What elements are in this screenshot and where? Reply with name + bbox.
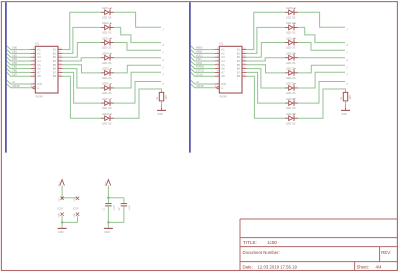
- wire IC2 B3 to LED11 anode: [247, 43, 285, 58]
- svg-text:GB2: GB2: [12, 53, 18, 57]
- svg-text:A5: A5: [37, 63, 41, 67]
- wire IC1 B3 to LED3 anode: [63, 43, 101, 58]
- svg-text:A6: A6: [37, 67, 41, 71]
- svg-text:A8: A8: [37, 74, 41, 78]
- label LED6 value LED-3S: [102, 91, 112, 95]
- net stub label M4: [345, 58, 347, 61]
- svg-text:IC1: IC1: [35, 42, 40, 46]
- wire LED16 cathode to resistor R2: [298, 89, 345, 118]
- IC IC2 pin A6 (pin 7): [215, 67, 225, 71]
- wire power-gate GND rail: [62, 216, 77, 222]
- svg-text:100n: 100n: [129, 205, 131, 211]
- svg-text:LED-3S: LED-3S: [286, 46, 296, 50]
- svg-text:GB0: GB0: [12, 46, 18, 50]
- LED LED5: [101, 68, 114, 75]
- ground symbol below R2: [341, 107, 350, 110]
- svg-text:LED-3S: LED-3S: [102, 91, 112, 95]
- svg-text:LED3: LED3: [102, 36, 109, 40]
- label LED1 value LED-3S: [102, 15, 112, 19]
- power gate IC1P GND pin: [59, 213, 64, 218]
- svg-text:LED-3S: LED-3S: [102, 76, 112, 80]
- svg-text:IC2: IC2: [219, 42, 224, 46]
- LED LED10: [285, 23, 298, 30]
- title block Document Number label: [243, 250, 280, 255]
- wire LED13 cathode to net stub M5: [298, 65, 345, 73]
- net stub label L6: [161, 73, 163, 76]
- capacitor C1: [105, 204, 111, 206]
- wire IC2 B1 to LED9 anode: [247, 12, 285, 49]
- resistor R1: [159, 92, 163, 101]
- wire R2 to ground: [345, 101, 347, 108]
- wire IC2 B8 to LED16 anode: [247, 76, 285, 118]
- IC IC1 pin A5 (pin 6): [31, 63, 41, 67]
- svg-text:LED-3S: LED-3S: [102, 106, 112, 110]
- svg-text:LED10: LED10: [286, 21, 295, 25]
- net label ASMI: [196, 61, 203, 65]
- svg-text:B7: B7: [237, 70, 241, 74]
- wire net H1 from bus to IC1 pin DIR: [7, 80, 31, 84]
- svg-text:GB3: GB3: [12, 57, 18, 61]
- wire IC1 B4 to LED4 anode: [63, 58, 101, 61]
- label C2 value 100n: [129, 205, 131, 211]
- label GND below R2: [341, 113, 347, 116]
- svg-text:H1: H1: [12, 80, 16, 84]
- wire net GB3 from bus to IC1 pin A4: [7, 57, 31, 61]
- wire to ground symbol (capacitors): [107, 222, 109, 228]
- wire IC2 B2 to LED10 anode: [247, 27, 285, 53]
- LED LED12: [285, 53, 298, 60]
- IC IC1 name label: [35, 42, 40, 46]
- IC IC1 pin DIR (pin 1): [31, 82, 42, 86]
- svg-text:74245: 74245: [35, 94, 43, 98]
- svg-text:LED-3S: LED-3S: [102, 121, 112, 125]
- label VCC (power gates): [59, 181, 61, 186]
- net label VBB0: [196, 46, 203, 50]
- net label VBB1: [196, 50, 203, 54]
- IC IC2 pin A1 (pin 2): [215, 48, 225, 52]
- wire net GB5 from bus to IC1 pin A6: [7, 65, 31, 69]
- power gate IC2P VCC pin: [74, 197, 79, 202]
- wire R1 to ground: [161, 101, 163, 108]
- wire LED1 cathode to net stub L1: [114, 12, 161, 27]
- svg-text:ASMI: ASMI: [196, 61, 203, 65]
- svg-text:LED14: LED14: [286, 82, 295, 86]
- IC IC1 pin B6 (pin 13): [53, 67, 63, 71]
- IC IC2 pin B8 (pin 11): [237, 74, 247, 78]
- svg-text:Date:: Date:: [243, 265, 253, 270]
- label LED9 value LED-3S: [286, 15, 296, 19]
- IC IC2 pin A2 (pin 3): [215, 51, 225, 55]
- net stub label M7: [345, 82, 347, 85]
- IC IC2 pin A7 (pin 8): [215, 70, 225, 74]
- IC IC1 pin B5 (pin 14): [53, 63, 63, 67]
- wire capacitor bottoms to GND: [108, 206, 124, 223]
- svg-text:VCC: VCC: [59, 197, 61, 202]
- svg-text:LED2: LED2: [102, 21, 109, 25]
- wire LED7 cathode to net stub L7: [114, 82, 161, 104]
- wire IC1 B6 to LED6 anode: [63, 69, 101, 88]
- svg-text:A7: A7: [221, 70, 225, 74]
- svg-text:LED1: LED1: [102, 6, 109, 10]
- label C2 name: [119, 207, 121, 211]
- ground symbol (power gates): [58, 227, 67, 229]
- title block Date: [243, 265, 298, 270]
- svg-text:G: G: [221, 86, 223, 90]
- svg-text:B3: B3: [237, 55, 241, 59]
- net stub label M5: [345, 66, 347, 69]
- IC IC2 pin A4 (pin 5): [215, 59, 225, 63]
- title block Sheet: [357, 265, 383, 270]
- label LED12 name: [286, 51, 295, 55]
- label LED16 value LED-3S: [286, 121, 296, 125]
- label LED15 name: [286, 97, 295, 101]
- svg-text:VBB0: VBB0: [196, 46, 203, 50]
- wire VCC to capacitors: [108, 186, 124, 204]
- wire LED6 cathode to net stub L6: [114, 72, 161, 88]
- IC IC1 74245 body: [35, 46, 58, 93]
- wire LED15 cathode to net stub M7: [298, 82, 345, 104]
- label LED13 name: [286, 67, 295, 71]
- net label GB2: [12, 53, 18, 57]
- label LED12 value LED-3S: [286, 61, 296, 65]
- IC IC2 pin G (pin 19, inverting): [214, 86, 223, 90]
- svg-text:A3: A3: [221, 55, 225, 59]
- wire net GB4 from bus to IC1 pin A5: [7, 61, 31, 65]
- IC IC2 74245 body: [219, 46, 242, 93]
- svg-text:A1: A1: [37, 48, 41, 52]
- wire IC1 B5 to LED5 anode: [63, 65, 101, 73]
- svg-text:LED-3S: LED-3S: [286, 15, 296, 19]
- junction node GND rail: [61, 221, 63, 223]
- title block REV label: [381, 250, 391, 255]
- label VCC (capacitors): [105, 181, 107, 186]
- svg-text:GND: GND: [104, 231, 110, 234]
- power gate IC1P label: [58, 208, 64, 211]
- svg-text:B5: B5: [53, 63, 57, 67]
- svg-text:LED-3S: LED-3S: [286, 106, 296, 110]
- capacitor C2: [121, 204, 127, 206]
- svg-text:A7: A7: [37, 70, 41, 74]
- wire VCC to power-gate pins: [62, 186, 77, 198]
- IC IC1 pin B8 (pin 11): [53, 74, 63, 78]
- svg-text:A6: A6: [221, 67, 225, 71]
- svg-text:LED13: LED13: [286, 67, 295, 71]
- svg-text:LED4: LED4: [102, 51, 109, 55]
- LED LED7: [101, 98, 114, 105]
- svg-text:B6: B6: [237, 67, 241, 71]
- wire IC2 B7 to LED15 anode: [247, 72, 285, 103]
- wire net GB0 from bus to IC1 pin A1: [7, 46, 31, 50]
- svg-text:B1: B1: [237, 48, 241, 52]
- label C1 name: [103, 207, 105, 211]
- wire IC2 B6 to LED14 anode: [247, 69, 285, 88]
- label LED14 value LED-3S: [286, 91, 296, 95]
- svg-text:LED-3S: LED-3S: [102, 15, 112, 19]
- IC IC1 pin B4 (pin 15): [53, 59, 63, 63]
- wire net H1 from bus to IC2 pin DIR: [191, 80, 215, 84]
- IC IC1 pin A4 (pin 5): [31, 59, 41, 63]
- IC IC2 pin B1 (pin 18): [237, 48, 247, 52]
- label GND below R1: [157, 113, 163, 116]
- ground symbol (capacitors): [104, 227, 113, 229]
- wire net /2CS1 from bus to IC2 pin A8: [191, 72, 215, 76]
- svg-text:GB6: GB6: [12, 69, 18, 73]
- IC IC2 name label: [219, 42, 224, 46]
- label LED7 value LED-3S: [102, 106, 112, 110]
- title block outline: [240, 219, 397, 271]
- supply symbol VCC (capacitors): [106, 180, 111, 186]
- IC IC1 pin B3 (pin 16): [53, 55, 63, 59]
- LED LED16: [285, 114, 298, 121]
- svg-text:GB7: GB7: [12, 72, 18, 76]
- IC IC2 pin B5 (pin 14): [237, 63, 247, 67]
- label LED3 value LED-3S: [102, 46, 112, 50]
- svg-text:LED-3S: LED-3S: [102, 31, 112, 35]
- wire IC2 B5 to LED13 anode: [247, 65, 285, 73]
- label C1 value 100n: [114, 205, 116, 211]
- svg-text:LED6: LED6: [102, 82, 109, 86]
- svg-text:/WMB1: /WMB1: [196, 65, 205, 69]
- svg-text:220: 220: [349, 95, 352, 100]
- label LED13 value LED-3S: [286, 76, 296, 80]
- net stub label L4: [161, 58, 163, 61]
- power gate IC2P GND pin: [74, 213, 79, 218]
- net stub label L5: [161, 66, 163, 69]
- label R2 name: [340, 96, 343, 100]
- wire LED8 cathode to resistor R1: [114, 89, 161, 118]
- svg-text:/2MSB: /2MSB: [196, 84, 204, 88]
- svg-text:GND: GND: [59, 213, 61, 218]
- wire net GB2 from bus to IC1 pin A3: [7, 53, 31, 57]
- net label /2CS1: [196, 72, 204, 76]
- svg-text:GND: GND: [58, 231, 64, 234]
- svg-text:VDD1: VDD1: [196, 53, 203, 57]
- IC IC1 pin A2 (pin 3): [31, 51, 41, 55]
- net stub label M1: [345, 28, 347, 31]
- LED LED4: [101, 53, 114, 60]
- net stub label L1: [161, 28, 163, 31]
- svg-text:VCC: VCC: [74, 197, 76, 202]
- IC IC1 pin A7 (pin 8): [31, 70, 41, 74]
- svg-text:LED16: LED16: [286, 112, 295, 116]
- svg-text:12.03.2019 17.56.19: 12.03.2019 17.56.19: [258, 265, 298, 270]
- label LED11 name: [286, 36, 295, 40]
- svg-text:B5: B5: [237, 63, 241, 67]
- svg-text:/2CS1: /2CS1: [196, 72, 204, 76]
- wire net VDD1 from bus to IC2 pin A3: [191, 53, 215, 57]
- svg-text:B1: B1: [53, 48, 57, 52]
- svg-text:DIR: DIR: [221, 82, 226, 86]
- svg-text:VCC: VCC: [59, 181, 61, 186]
- net label /WMB1: [196, 65, 205, 69]
- svg-text:LED12: LED12: [286, 51, 295, 55]
- power gate IC2P label: [73, 208, 79, 211]
- wire IC2 B4 to LED12 anode: [247, 58, 285, 61]
- wire LED11 cathode to net stub M3: [298, 43, 345, 51]
- wire IC1 B1 to LED1 anode: [63, 12, 101, 49]
- svg-text:A5: A5: [221, 63, 225, 67]
- svg-text:A4: A4: [221, 59, 225, 63]
- svg-text:GND: GND: [74, 213, 76, 218]
- svg-text:IC2P: IC2P: [73, 208, 79, 211]
- wire to ground symbol (power gates): [61, 222, 63, 228]
- net label H1: [196, 80, 200, 84]
- svg-text:LED-3S: LED-3S: [286, 121, 296, 125]
- IC IC1 pin A6 (pin 7): [31, 67, 41, 71]
- label LED1 name: [102, 6, 109, 10]
- LED LED2: [101, 23, 114, 30]
- net label /OE1: [196, 57, 202, 61]
- svg-text:VCC: VCC: [105, 181, 107, 186]
- label LED7 name: [102, 97, 109, 101]
- svg-text:LED-3S: LED-3S: [286, 61, 296, 65]
- net label GB6: [12, 69, 18, 73]
- LED LED11: [285, 38, 298, 45]
- LED LED14: [285, 83, 298, 90]
- svg-text:LED11: LED11: [286, 36, 295, 40]
- svg-text:LED-3S: LED-3S: [102, 61, 112, 65]
- wire net ASMI from bus to IC2 pin A5: [191, 61, 215, 65]
- wire net VBB1 from bus to IC2 pin A2: [191, 50, 215, 54]
- svg-text:LED5: LED5: [102, 67, 109, 71]
- net stub label M6: [345, 73, 347, 76]
- bus B1: [5, 2, 7, 152]
- svg-text:B7: B7: [53, 70, 57, 74]
- label R2 value 220: [349, 95, 352, 100]
- IC IC1 pin B1 (pin 18): [53, 48, 63, 52]
- label LED11 value LED-3S: [286, 46, 296, 50]
- label LED4 value LED-3S: [102, 61, 112, 65]
- svg-text:LED-3S: LED-3S: [286, 76, 296, 80]
- label LED10 name: [286, 21, 295, 25]
- net label GB3: [12, 57, 18, 61]
- svg-text:TITLE:: TITLE:: [243, 240, 257, 245]
- label R1 value 220: [165, 95, 168, 100]
- svg-text:B4: B4: [53, 59, 57, 63]
- label LED9 name: [286, 6, 293, 10]
- svg-text:GB1: GB1: [12, 50, 18, 54]
- wire net /2MSB from bus to IC1 pin G: [7, 84, 30, 88]
- LED LED1: [101, 8, 114, 15]
- net label GB4: [12, 61, 18, 65]
- svg-text:B4: B4: [237, 59, 241, 63]
- IC IC1 pin A8 (pin 9): [31, 74, 41, 78]
- label LED16 name: [286, 112, 295, 116]
- svg-text:A4: A4: [37, 59, 41, 63]
- net stub label L3: [161, 51, 163, 54]
- IC IC1 value 74245: [35, 94, 43, 98]
- IC IC2 pin A3 (pin 4): [215, 55, 225, 59]
- svg-text:LED15: LED15: [286, 97, 295, 101]
- IC IC1 pin B7 (pin 12): [53, 70, 63, 74]
- svg-text:GB5: GB5: [12, 65, 18, 69]
- svg-text:G: G: [37, 86, 39, 90]
- label LED8 name: [102, 112, 109, 116]
- LED LED9: [285, 8, 298, 15]
- label LED5 value LED-3S: [102, 76, 112, 80]
- svg-text:A8: A8: [221, 74, 225, 78]
- ground symbol below R1: [157, 107, 166, 110]
- wire LED3 cathode to net stub L3: [114, 43, 161, 51]
- wire LED14 cathode to net stub M6: [298, 72, 345, 88]
- net stub label L7: [161, 82, 163, 85]
- svg-text:LED7: LED7: [102, 97, 109, 101]
- svg-text:B3: B3: [53, 55, 57, 59]
- net stub label L2: [161, 43, 163, 46]
- IC IC2 pin B4 (pin 15): [237, 59, 247, 63]
- IC IC2 pin B6 (pin 13): [237, 67, 247, 71]
- label R1 name: [156, 96, 159, 100]
- svg-text:/OE1: /OE1: [196, 57, 202, 61]
- wire net VBB0 from bus to IC2 pin A1: [191, 46, 215, 50]
- supply symbol VCC (power gates): [60, 180, 65, 186]
- svg-text:Sheet:: Sheet:: [357, 265, 369, 270]
- svg-text:GB4: GB4: [12, 61, 18, 65]
- svg-text:A2: A2: [221, 51, 225, 55]
- svg-text:VBB1: VBB1: [196, 50, 203, 54]
- svg-text:B8: B8: [53, 74, 57, 78]
- svg-text:B2: B2: [237, 51, 241, 55]
- svg-text:B2: B2: [53, 51, 57, 55]
- svg-text:IC1P: IC1P: [58, 208, 64, 211]
- net stub label M3: [345, 51, 347, 54]
- junction node capacitor top: [107, 197, 109, 199]
- net label /2MSB: [196, 84, 204, 88]
- net label GB7: [12, 72, 18, 76]
- svg-text:74245: 74245: [219, 94, 227, 98]
- IC IC2 pin A8 (pin 9): [215, 74, 225, 78]
- svg-text:/2MSB: /2MSB: [12, 84, 20, 88]
- IC IC2 pin DIR (pin 1): [215, 82, 226, 86]
- svg-text:GND: GND: [157, 113, 163, 116]
- wire net /WMB1 from bus to IC2 pin A6: [191, 65, 215, 69]
- svg-text:B6: B6: [53, 67, 57, 71]
- label LED2 name: [102, 21, 109, 25]
- svg-text:B8: B8: [237, 74, 241, 78]
- wire LED10 cathode to net stub M2: [298, 27, 345, 42]
- net label 1STCK: [196, 69, 205, 73]
- svg-text:A2: A2: [37, 51, 41, 55]
- label LED15 value LED-3S: [286, 106, 296, 110]
- svg-text:LED8: LED8: [102, 112, 109, 116]
- LED LED13: [285, 68, 298, 75]
- IC IC2 pin B2 (pin 17): [237, 51, 247, 55]
- net label GB5: [12, 65, 18, 69]
- net label H1: [12, 80, 16, 84]
- svg-text:A3: A3: [37, 55, 41, 59]
- wire net /OE1 from bus to IC2 pin A4: [191, 57, 215, 61]
- net label /2MSB: [12, 84, 20, 88]
- power gate IC1P VCC pin: [59, 197, 64, 202]
- label GND (capacitors): [104, 231, 110, 234]
- net stub label M2: [345, 43, 347, 46]
- wire net GB6 from bus to IC1 pin A7: [7, 69, 31, 73]
- label LED3 name: [102, 36, 109, 40]
- svg-text:LED-3S: LED-3S: [286, 91, 296, 95]
- svg-text:GND: GND: [341, 113, 347, 116]
- svg-text:REV:: REV:: [381, 250, 391, 255]
- label LED4 name: [102, 51, 109, 55]
- svg-text:100n: 100n: [114, 205, 116, 211]
- IC IC1 pin B2 (pin 17): [53, 51, 63, 55]
- bus B2: [189, 2, 191, 152]
- wire LED9 cathode to net stub M1: [298, 12, 345, 27]
- title block title value 1c50: [267, 240, 277, 245]
- svg-text:LED-3S: LED-3S: [286, 31, 296, 35]
- svg-text:LED9: LED9: [286, 6, 293, 10]
- LED LED15: [285, 98, 298, 105]
- label LED10 value LED-3S: [286, 31, 296, 35]
